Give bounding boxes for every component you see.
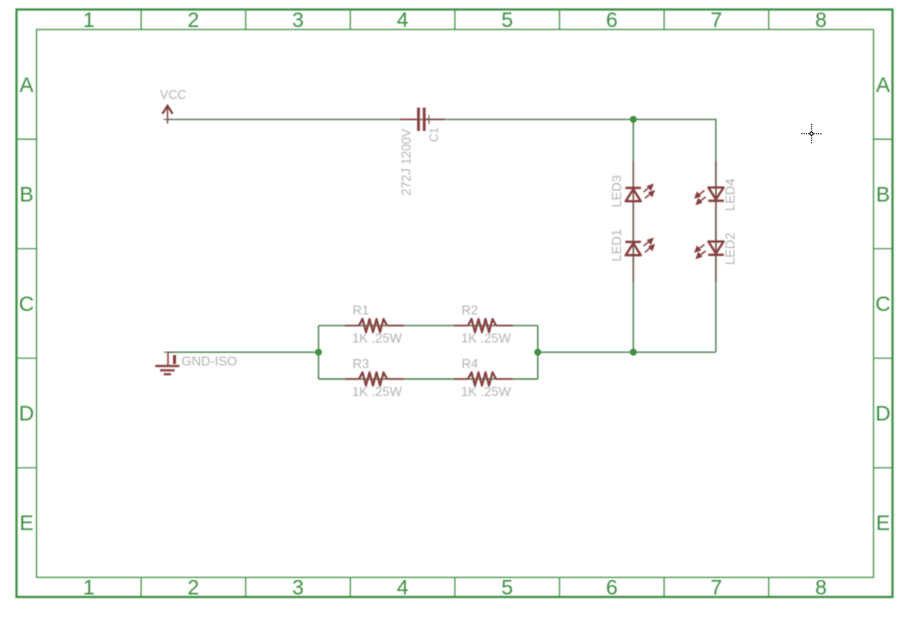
svg-text:2: 2 <box>188 9 200 32</box>
supply VCC <box>162 106 172 124</box>
wire resistor bank left vertical <box>318 326 320 379</box>
svg-text:GND-ISO: GND-ISO <box>182 354 238 369</box>
junction at top of LED column <box>630 116 637 123</box>
svg-text:LED3: LED3 <box>609 175 624 208</box>
wire resistor bottom row <box>319 378 538 380</box>
LED LED2 <box>695 242 724 259</box>
svg-text:E: E <box>19 512 33 535</box>
frame row letters left <box>19 74 34 535</box>
svg-text:1: 1 <box>83 9 95 32</box>
LED LED1 <box>625 238 654 255</box>
frame row dividers right <box>874 139 893 468</box>
svg-text:VCC: VCC <box>160 88 186 102</box>
svg-text:B: B <box>19 183 33 206</box>
svg-text:4: 4 <box>397 577 409 600</box>
svg-text:1K .25W: 1K .25W <box>352 331 403 346</box>
frame column dividers bottom <box>141 577 769 597</box>
resistor R3 <box>345 372 404 385</box>
svg-text:6: 6 <box>606 9 618 32</box>
svg-text:7: 7 <box>711 577 723 600</box>
svg-text:R4: R4 <box>462 356 479 371</box>
LED LED3 <box>625 184 654 201</box>
LED pins left column <box>632 161 634 282</box>
svg-text:E: E <box>876 512 890 535</box>
svg-text:5: 5 <box>501 9 513 32</box>
wire resistor bank to LED columns <box>538 351 716 353</box>
frame column numbers bottom <box>83 577 827 600</box>
svg-text:1K .25W: 1K .25W <box>461 384 512 399</box>
wire left LED column <box>632 119 634 352</box>
svg-text:1K .25W: 1K .25W <box>461 331 512 346</box>
svg-text:3: 3 <box>292 577 304 600</box>
svg-text:D: D <box>875 403 890 426</box>
junction at GND / resistor bank <box>315 349 322 356</box>
svg-text:1: 1 <box>83 577 95 600</box>
LED pins right column <box>715 161 717 282</box>
svg-text:3: 3 <box>292 9 304 32</box>
svg-text:R1: R1 <box>353 303 370 318</box>
svg-text:6: 6 <box>606 577 618 600</box>
svg-text:B: B <box>876 183 890 206</box>
svg-text:C1: C1 <box>429 127 441 142</box>
resistor R4 <box>454 372 513 385</box>
svg-text:8: 8 <box>815 577 827 600</box>
svg-text:1K .25W: 1K .25W <box>352 384 403 399</box>
svg-text:R3: R3 <box>353 356 370 371</box>
svg-text:4: 4 <box>397 9 409 32</box>
capacitor C1 <box>400 108 445 131</box>
svg-text:LED2: LED2 <box>723 232 738 265</box>
svg-text:D: D <box>19 403 34 426</box>
wire GND to resistor bank <box>168 351 319 353</box>
svg-text:C: C <box>19 293 34 316</box>
frame column numbers top <box>83 9 827 32</box>
svg-text:LED4: LED4 <box>723 178 738 211</box>
svg-text:2: 2 <box>188 577 200 600</box>
frame row letters right <box>875 74 890 535</box>
svg-text:R2: R2 <box>462 303 479 318</box>
junction at bottom of left LED column <box>630 349 637 356</box>
svg-text:A: A <box>876 74 890 97</box>
svg-text:8: 8 <box>815 9 827 32</box>
svg-text:LED1: LED1 <box>609 229 624 262</box>
resistor R2 <box>454 319 513 332</box>
wire resistor bank right vertical <box>537 326 539 379</box>
svg-text:A: A <box>19 74 33 97</box>
wire resistor top row <box>319 325 538 327</box>
svg-text:5: 5 <box>501 577 513 600</box>
ground GND-ISO <box>155 352 179 374</box>
frame column dividers top <box>141 10 769 30</box>
svg-text:C: C <box>875 293 890 316</box>
wire VCC to top-right corner (net N$1) <box>168 119 716 352</box>
resistor R1 <box>345 319 404 332</box>
LED LED4 <box>695 188 724 205</box>
svg-text:272J 1200V: 272J 1200V <box>400 128 414 195</box>
cursor crosshair <box>801 124 821 144</box>
junction at resistor bank right <box>534 349 541 356</box>
svg-text:7: 7 <box>711 9 723 32</box>
frame row dividers left <box>17 139 37 468</box>
